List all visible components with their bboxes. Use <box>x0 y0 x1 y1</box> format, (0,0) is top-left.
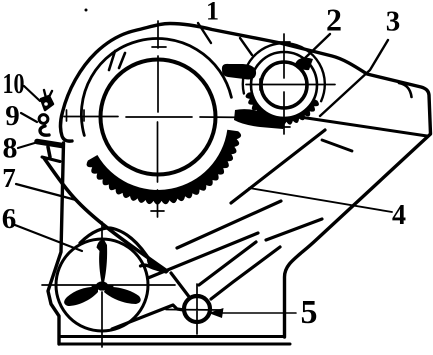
sprocket 2: bold inner circle <box>261 62 307 108</box>
outline segment scroll tip to boss <box>171 273 190 298</box>
chain guide rail <box>44 158 167 271</box>
sprocket 2: outer circle <box>243 43 325 101</box>
leader 6 <box>15 225 82 251</box>
svg-text:9: 9 <box>5 100 20 132</box>
svg-text:8: 8 <box>3 132 18 165</box>
fan blade lower-right <box>104 287 141 304</box>
leader 8 <box>18 142 38 148</box>
centerlines: bolt boss <box>166 284 222 334</box>
svg-text:6: 6 <box>2 203 17 235</box>
mesh blob between gears <box>234 109 286 129</box>
svg-text:1: 1 <box>206 0 219 26</box>
bolt boss circle 5 <box>184 296 210 322</box>
svg-text:2: 2 <box>326 2 342 38</box>
leader 10 <box>24 86 40 101</box>
stray dot <box>85 9 88 12</box>
leader 9 <box>21 113 37 122</box>
small corner arc top-right <box>399 83 412 97</box>
fan circle <box>56 239 148 331</box>
svg-text:4: 4 <box>392 200 406 231</box>
fan hub <box>96 281 108 290</box>
centerlines: camshaft gear <box>64 21 257 217</box>
part 9 lower lump <box>40 126 49 135</box>
leader 1 <box>198 23 252 55</box>
svg-text:3: 3 <box>386 6 401 38</box>
tooth wedge top-right of sprocket <box>295 58 313 70</box>
part 8 (bracket bar) <box>37 142 62 162</box>
fan scroll shroud <box>80 228 166 272</box>
outline segment fan to bolt boss <box>112 305 184 329</box>
fan blade up <box>97 240 108 285</box>
svg-text:7: 7 <box>2 163 16 193</box>
crease line under sprocket <box>322 140 352 151</box>
sprocket teeth <box>246 92 319 125</box>
leader 5 arrowhead <box>209 308 224 318</box>
bottom flange double line <box>59 337 290 345</box>
leader 2 <box>303 34 330 60</box>
outline segment boss to corner <box>211 247 280 299</box>
leader 7 <box>16 184 76 200</box>
leader 4 <box>249 188 392 212</box>
chain tensioner blob <box>222 64 256 80</box>
fan blade lower-left <box>64 287 98 306</box>
leader 3 <box>320 40 388 116</box>
face crease P (shallow, long) <box>177 201 281 248</box>
svg-text:5: 5 <box>301 294 318 331</box>
camshaft gear teeth <box>87 130 242 205</box>
svg-text:10: 10 <box>3 69 25 100</box>
inner edge (3D thickness, top right) <box>300 117 427 136</box>
leader 5 <box>222 312 296 314</box>
camshaft gear 1: bold inner circle <box>101 60 216 175</box>
face crease D2 <box>148 219 322 278</box>
face crease Q (steep, upper) <box>231 130 325 203</box>
centerlines: sprocket <box>246 34 335 134</box>
beak tip blob <box>147 257 169 272</box>
part 10 (ratchet pawl) <box>41 90 53 110</box>
sprocket 2: middle circle <box>251 52 317 118</box>
keyway wedge marks <box>109 51 125 70</box>
housing outline (timing cover) <box>48 24 431 345</box>
centerlines: fan <box>42 222 175 347</box>
camshaft gear 1: outer arc (top) <box>81 39 231 136</box>
part 9 (spring eye) <box>39 115 48 124</box>
